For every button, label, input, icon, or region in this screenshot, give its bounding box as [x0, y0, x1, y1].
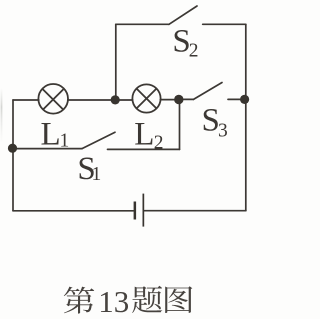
wire left-top vertical	[115, 24, 117, 100]
wire lamp row: L2 to node	[160, 99, 178, 101]
switch S1 lever	[82, 132, 115, 148]
switch S2 lever	[169, 6, 197, 24]
wire left vertical	[12, 100, 14, 211]
wire lamp row: L1 to L2	[68, 99, 133, 101]
lamp L1	[38, 84, 68, 114]
svg-text:3: 3	[218, 120, 228, 141]
wire top rail left segment	[116, 23, 169, 25]
svg-text:1: 1	[92, 164, 102, 185]
caption character 图	[165, 286, 192, 313]
wire top rail right segment	[203, 23, 246, 25]
lamp L2	[132, 84, 160, 112]
wire S1 row right segment	[108, 148, 180, 150]
node junction dot between lamps	[111, 95, 120, 104]
wire S3 feed from node	[179, 98, 194, 100]
node junction dot on right vertical	[240, 95, 249, 104]
wire S3 right contact	[228, 98, 246, 100]
wire right vertical	[245, 24, 247, 210]
battery positive plate (long thin)	[143, 194, 145, 227]
svg-text:1: 1	[60, 131, 70, 152]
caption character 第	[64, 287, 94, 314]
caption character 题	[132, 286, 162, 313]
svg-text:2: 2	[189, 41, 199, 62]
wire lamp row: left feed to L1	[13, 99, 39, 101]
wire bottom rail left of battery	[13, 210, 133, 212]
switch S3 lever	[194, 83, 223, 100]
svg-text:L: L	[134, 116, 154, 152]
wire bottom rail right of battery	[144, 210, 246, 212]
wire S1 row left segment	[13, 148, 82, 150]
svg-text:L: L	[41, 116, 61, 152]
node junction dot at L2 / S3 / S1-branch	[174, 95, 183, 104]
battery negative plate (short thick)	[134, 202, 137, 220]
svg-text:13: 13	[98, 284, 129, 319]
node junction dot on left vertical (S1 tap)	[8, 144, 17, 153]
wire S1 branch vertical to node	[179, 100, 181, 150]
svg-text:2: 2	[154, 132, 164, 153]
